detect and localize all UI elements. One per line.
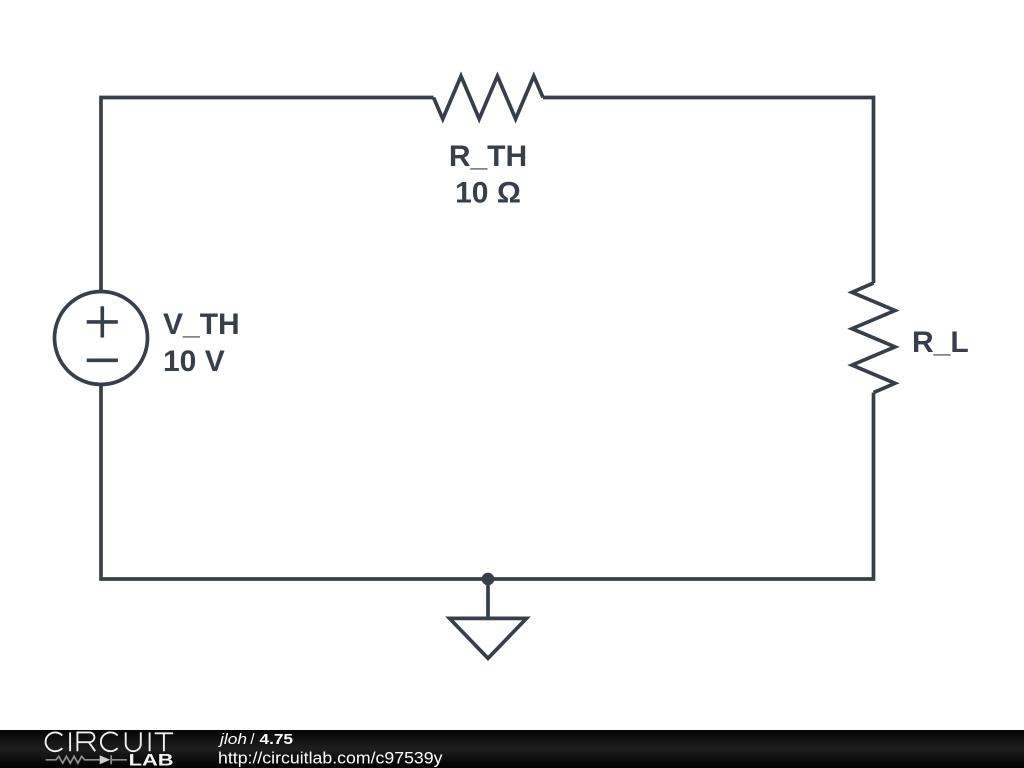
wire top-right horizontal + right vertical upper bbox=[543, 98, 874, 284]
svg-text:4.75: 4.75 bbox=[260, 731, 294, 748]
wire left vertical + top-left horizontal bbox=[101, 98, 434, 293]
logo word CIRCUIT (thin custom letters) bbox=[46, 732, 174, 751]
voltage source plus sign bbox=[87, 306, 118, 337]
logo letter C bbox=[101, 732, 118, 751]
ground stem bbox=[486, 579, 490, 618]
resistor R_L bbox=[852, 283, 895, 393]
logo wire and resistor zigzag bbox=[46, 756, 100, 763]
voltage source minus sign bbox=[87, 358, 118, 362]
footer bar bbox=[0, 730, 1024, 768]
junction node dot bbox=[482, 573, 495, 586]
logo mini-schematic wire with resistor bbox=[46, 755, 127, 764]
logo letter T bbox=[155, 733, 173, 751]
svg-text:http://circuitlab.com/c97539y: http://circuitlab.com/c97539y bbox=[218, 748, 443, 767]
logo letter I bbox=[69, 732, 71, 751]
ground triangle bbox=[450, 618, 527, 658]
svg-text:jloh: jloh bbox=[218, 731, 247, 748]
logo letter U bbox=[126, 732, 141, 751]
svg-text:R_TH: R_TH bbox=[449, 140, 527, 173]
logo letter R bbox=[77, 732, 95, 751]
resistor R_TH bbox=[434, 76, 544, 119]
logo diode triangle bbox=[100, 755, 111, 764]
svg-text:R_L: R_L bbox=[912, 326, 969, 359]
logo letter I bbox=[149, 732, 151, 751]
svg-text:V_TH: V_TH bbox=[163, 308, 240, 341]
svg-text:10 V: 10 V bbox=[163, 345, 225, 378]
logo diode cathode bar and exit wire bbox=[111, 755, 127, 764]
svg-text:LAB: LAB bbox=[129, 752, 174, 768]
wire right vertical lower + bottom horizontal + left vertical lower bbox=[101, 385, 874, 579]
logo letter C bbox=[46, 732, 63, 751]
voltage source V_TH circle bbox=[55, 292, 148, 385]
svg-text:10 Ω: 10 Ω bbox=[455, 176, 521, 209]
